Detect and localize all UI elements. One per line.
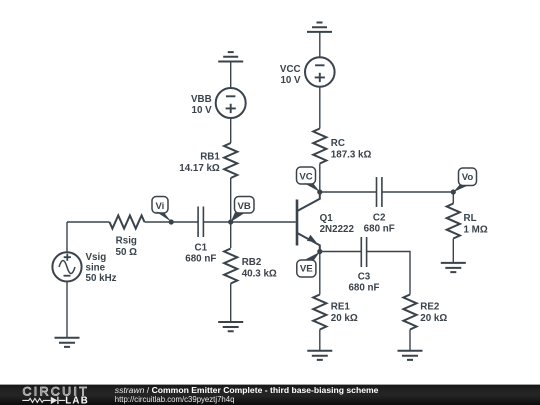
wire VC to C2 bbox=[320, 191, 377, 193]
node VC bbox=[297, 167, 323, 195]
svg-text:Vi: Vi bbox=[155, 201, 164, 212]
svg-text:C2: C2 bbox=[373, 213, 386, 224]
wire VB node to RB2 bbox=[230, 222, 232, 248]
svg-text:680 nF: 680 nF bbox=[348, 283, 379, 294]
svg-text:VCC: VCC bbox=[280, 64, 301, 75]
svg-text:10 V: 10 V bbox=[280, 75, 301, 86]
capacitor C1 bbox=[185, 207, 216, 265]
resistor RE1 bbox=[313, 295, 358, 330]
wire RE2 to ground bbox=[409, 330, 411, 351]
svg-text:10 V: 10 V bbox=[192, 105, 213, 116]
svg-text:2N2222: 2N2222 bbox=[320, 224, 355, 235]
wire C1 to base bbox=[203, 221, 295, 223]
svg-text:Rsig: Rsig bbox=[116, 236, 137, 247]
CircuitLab logo bbox=[22, 384, 89, 405]
svg-text:RB2: RB2 bbox=[242, 257, 262, 268]
svg-text:50 kHz: 50 kHz bbox=[86, 273, 117, 284]
wire ground to VCC bbox=[319, 32, 321, 57]
svg-text:VBB: VBB bbox=[191, 94, 212, 105]
wire ground to VBB bbox=[230, 62, 232, 89]
svg-text:LAB: LAB bbox=[65, 395, 89, 405]
svg-text:Vsig: Vsig bbox=[86, 252, 107, 263]
svg-text:VB: VB bbox=[238, 201, 251, 212]
svg-text:680 nF: 680 nF bbox=[185, 254, 216, 265]
resistor RC bbox=[313, 129, 371, 164]
voltage source VCC bbox=[280, 57, 335, 87]
wire Vsig bottom to ground bbox=[66, 282, 68, 338]
svg-text:187.3 kΩ: 187.3 kΩ bbox=[331, 150, 372, 161]
wire Rsig to C1 bbox=[145, 221, 199, 223]
wire VBB to RB1 bbox=[230, 118, 232, 143]
ground below RE2 bbox=[398, 351, 423, 360]
svg-text:sine: sine bbox=[86, 263, 106, 274]
wire RL to ground bbox=[452, 239, 454, 263]
svg-text:sstrawn / Common Emitter Compl: sstrawn / Common Emitter Complete - thir… bbox=[115, 385, 379, 395]
node VE bbox=[297, 249, 323, 277]
svg-text:RE1: RE1 bbox=[331, 302, 351, 313]
wire RB1 to VB node bbox=[230, 178, 232, 222]
svg-text:RE2: RE2 bbox=[420, 302, 440, 313]
svg-text:C3: C3 bbox=[358, 272, 371, 283]
wire Vsig top to main row bbox=[66, 222, 68, 252]
wire main row left bbox=[67, 221, 110, 223]
svg-text:1 MΩ: 1 MΩ bbox=[464, 225, 488, 236]
ground above VBB bbox=[218, 52, 243, 61]
svg-text:20 kΩ: 20 kΩ bbox=[331, 313, 358, 324]
svg-text:14.17 kΩ: 14.17 kΩ bbox=[179, 163, 220, 174]
svg-text:http://circuitlab.com/c39pyezt: http://circuitlab.com/c39pyeztj7h4q bbox=[115, 395, 235, 404]
ground below RB2 bbox=[218, 322, 243, 331]
svg-text:680 nF: 680 nF bbox=[364, 224, 395, 235]
svg-text:RB1: RB1 bbox=[200, 152, 220, 163]
wire VE to C3 bbox=[320, 251, 362, 253]
svg-text:Vo: Vo bbox=[462, 172, 474, 183]
svg-text:RL: RL bbox=[464, 213, 477, 224]
wire RC to VC node bbox=[319, 164, 321, 193]
wire VE to RE1 bbox=[319, 252, 321, 295]
svg-text:40.3 kΩ: 40.3 kΩ bbox=[242, 269, 277, 280]
svg-text:RC: RC bbox=[331, 138, 345, 149]
node Vi bbox=[152, 197, 174, 225]
transistor Q1 bbox=[297, 192, 354, 252]
resistor RB2 bbox=[224, 249, 277, 284]
wire RE1 to ground bbox=[319, 330, 321, 351]
node VB bbox=[228, 197, 254, 225]
svg-text:50 Ω: 50 Ω bbox=[116, 247, 138, 258]
node Vo bbox=[451, 168, 477, 195]
wire VCC to RC bbox=[319, 87, 321, 129]
ground above VCC bbox=[307, 23, 332, 32]
ground below RL bbox=[441, 263, 466, 272]
wire RB2 to ground bbox=[230, 284, 232, 323]
svg-text:VC: VC bbox=[299, 172, 312, 183]
svg-text:C1: C1 bbox=[195, 243, 208, 254]
ground below RE1 bbox=[307, 351, 332, 360]
resistor RL bbox=[447, 192, 488, 239]
resistor RE2 bbox=[403, 295, 447, 330]
wire C2 to Vo node bbox=[382, 191, 453, 193]
resistor RB1 bbox=[179, 143, 237, 178]
ground below Vsig bbox=[55, 338, 80, 347]
svg-text:VE: VE bbox=[300, 264, 313, 275]
svg-text:20 kΩ: 20 kΩ bbox=[420, 313, 447, 324]
capacitor C3 bbox=[348, 237, 379, 294]
capacitor C2 bbox=[364, 177, 395, 235]
voltage source VBB bbox=[191, 88, 246, 118]
resistor Rsig bbox=[110, 216, 145, 259]
svg-text:Q1: Q1 bbox=[320, 213, 334, 224]
wire C3 to RE2 branch bbox=[367, 252, 410, 295]
voltage source Vsig sine bbox=[52, 252, 116, 284]
